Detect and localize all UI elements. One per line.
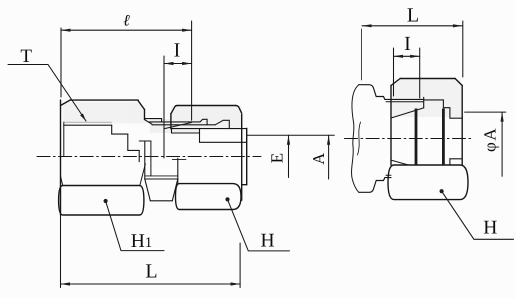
svg-text:I: I <box>174 40 181 62</box>
bore step horizontal <box>112 133 128 135</box>
ferrule box top <box>424 100 463 118</box>
svg-text:L: L <box>407 5 419 27</box>
A dim line <box>328 135 330 179</box>
bore step mirror vertical <box>449 159 451 165</box>
interior cone lower <box>391 160 408 165</box>
tube wall bar 2 <box>442 109 445 166</box>
leader dot H1 <box>104 199 108 203</box>
svg-text:H1: H1 <box>131 231 152 252</box>
ell arrows <box>61 29 71 32</box>
svg-text:E: E <box>267 153 286 163</box>
central hex right chamfer <box>172 179 178 201</box>
left fitting inner face line <box>63 122 65 157</box>
leader dot H right fitting <box>440 189 444 193</box>
H nut left face <box>170 114 172 129</box>
svg-text:φA: φA <box>481 127 500 152</box>
dim line I left <box>164 63 192 65</box>
svg-text:ℓ: ℓ <box>123 13 130 30</box>
neck shoulder vertical <box>161 119 163 122</box>
svg-text:H: H <box>261 231 275 252</box>
central hex flat <box>150 200 172 202</box>
central hex ring 1 <box>145 175 178 177</box>
right nut left face <box>390 86 392 166</box>
L arrows left fitting <box>61 282 71 285</box>
dim: I left extension <box>163 56 165 158</box>
svg-text:I: I <box>404 33 411 55</box>
centerline right fitting <box>345 138 474 140</box>
tube wall bar 1 <box>415 109 418 166</box>
svg-text:T: T <box>20 46 32 67</box>
body cone <box>165 123 192 129</box>
tongue band bottom <box>152 124 215 126</box>
body shoulder line <box>172 132 200 134</box>
bore step vertical <box>111 125 113 134</box>
through bore line <box>128 149 139 151</box>
L right extension right fitting <box>462 21 464 77</box>
H leader right fitting <box>442 191 514 239</box>
section shading H1 <box>62 102 150 124</box>
H1 hex corner diagonal right <box>140 164 146 186</box>
I dim line right fitting <box>394 55 420 57</box>
H nut right chamfer <box>236 106 242 114</box>
right fitting: L dim line <box>362 25 462 27</box>
nut bore step <box>172 128 247 130</box>
L right extension <box>239 243 241 288</box>
L arrows right fitting <box>362 24 372 27</box>
bore inner vertical <box>127 134 129 150</box>
right nut left chamfer <box>391 79 400 86</box>
I arrows right fitting <box>394 55 404 58</box>
phiA ref line <box>465 111 506 113</box>
central hex right face <box>177 158 179 183</box>
central hex left face <box>144 141 146 179</box>
thread light line <box>64 121 112 123</box>
bore step mirror <box>450 158 462 160</box>
I left ext right fitting <box>393 48 395 96</box>
svg-text:H: H <box>483 217 497 238</box>
svg-text:A: A <box>309 153 328 165</box>
H1 top edge <box>70 99 138 101</box>
tongue band top <box>148 121 200 123</box>
bore end vertical <box>138 150 140 161</box>
ferrule step up <box>200 119 207 125</box>
tube seat vertical <box>199 129 201 143</box>
thread crest line <box>64 124 112 126</box>
body shoulder vertical <box>171 129 173 133</box>
chamfer top-left H1 <box>61 100 71 105</box>
torn edge <box>352 85 359 193</box>
H1 tongue taper <box>145 120 153 125</box>
dim: script ell extension left <box>60 28 62 97</box>
T leader <box>8 65 86 122</box>
tube bottom inner line <box>386 174 391 176</box>
dim: ell/I right extension <box>191 21 193 120</box>
A reference line <box>247 134 335 136</box>
interior cone upper <box>391 108 424 118</box>
H hex band <box>176 184 242 210</box>
central hex left chamfer <box>145 179 151 201</box>
I arrows left <box>164 62 174 65</box>
A arrow <box>327 135 330 145</box>
H nut top edge <box>177 105 235 107</box>
right nut hex band <box>388 165 468 200</box>
E dim line <box>288 135 290 177</box>
E arrow <box>287 135 290 145</box>
ferrule box left <box>423 97 425 107</box>
H nut left chamfer <box>171 106 177 114</box>
right nut right chamfer <box>455 79 462 86</box>
dim line ell <box>61 29 192 31</box>
I right ext right fitting <box>419 48 421 98</box>
nut exit sleeve face <box>246 128 248 184</box>
phiA arrow <box>501 112 504 122</box>
L left extension right fitting <box>361 29 363 80</box>
L left extension <box>60 215 62 288</box>
nut exit step lower <box>242 184 247 186</box>
H1 hex corner diagonal left <box>61 177 63 186</box>
centerline left fitting <box>37 156 261 158</box>
sleeve bottom profile <box>359 178 391 193</box>
chamfer top-right H1 <box>138 101 144 110</box>
H1 right face upper <box>144 110 146 120</box>
H leader left fitting <box>228 199 290 251</box>
arrowheads <box>61 24 504 285</box>
section shading H nut <box>171 106 242 128</box>
torn edge echo <box>358 122 361 155</box>
right nut right face <box>461 86 463 166</box>
body neck top <box>145 118 162 120</box>
phiA dim line <box>501 112 503 176</box>
T leader arrowhead <box>80 114 86 122</box>
body inner vertical <box>150 141 152 176</box>
central hex ring 2 <box>145 178 178 180</box>
body step horizontal <box>139 140 151 142</box>
H1 leader <box>106 201 164 251</box>
section shading neck <box>150 119 200 133</box>
H1 hex band <box>59 186 144 216</box>
ferrule cone <box>215 120 229 128</box>
tube top inner line <box>386 101 424 103</box>
left fitting left face <box>60 100 62 215</box>
H nut right face <box>241 115 243 201</box>
dim line L left <box>61 283 241 285</box>
central hex corner line <box>172 158 186 160</box>
sleeve top profile <box>359 85 424 100</box>
section shading right nut <box>392 80 462 118</box>
tube line <box>200 141 247 143</box>
leader dot H left fitting <box>225 197 229 201</box>
right nut top edge <box>400 78 455 80</box>
svg-text:L: L <box>145 261 157 283</box>
